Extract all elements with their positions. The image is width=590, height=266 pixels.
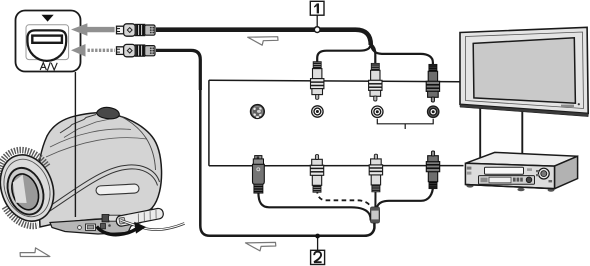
VCR bbox=[465, 152, 577, 191]
cable 1 branch to red plug bbox=[371, 44, 433, 65]
cable 1 branch to yellow plug bbox=[317, 43, 371, 62]
jack: S VIDEO bbox=[251, 105, 265, 119]
plug: cable2 s-video (up) bbox=[252, 156, 264, 194]
cable 2 junction moulding bbox=[371, 207, 380, 223]
cable 1 branch to white plug bbox=[371, 45, 375, 64]
label box 1 bbox=[310, 1, 324, 15]
camcorder body pill highlight bbox=[96, 184, 139, 195]
camcorder A/V port with plug inserted bbox=[102, 215, 122, 222]
cable 2 yellow plug branch (dashed, not connected) bbox=[317, 189, 371, 208]
plug of cable 1 (into A/V box) bbox=[117, 24, 156, 36]
plug: cable2 yellow (up) bbox=[310, 155, 323, 193]
jack: video (yellow) bbox=[312, 106, 323, 117]
camcorder A/V cable going out bbox=[121, 221, 185, 230]
signal-flow outline arrow (under cable 1, pointing left) bbox=[248, 37, 278, 46]
leader line from A/V box to port bbox=[74, 72, 76, 217]
dotted gray arrow into A/V box bbox=[71, 44, 115, 57]
plug of cable 2 (into A/V box) bbox=[117, 44, 156, 56]
jack: audio L (white) bbox=[372, 106, 383, 117]
cable 2 vertical run bbox=[200, 88, 374, 236]
jack: audio R (red) bbox=[428, 106, 439, 117]
plug: cable1 red (down, dark) bbox=[426, 64, 439, 102]
node 1 on cable 1 bbox=[314, 16, 320, 33]
cable 2 white plug branch bbox=[374, 190, 376, 209]
plug: cable2 red (up, dark) bbox=[426, 151, 439, 189]
bracket grouping audio jacks bbox=[377, 119, 433, 129]
cable 2 s-video branch bbox=[258, 193, 370, 221]
TV set bbox=[460, 27, 588, 116]
camcorder focus ring (knurled) bbox=[0, 142, 65, 234]
cable 1 trunk (A/V connecting cable) bbox=[156, 30, 371, 45]
plug: cable1 white (down) bbox=[369, 63, 382, 101]
camcorder jack cover (flipped open) bbox=[115, 208, 164, 227]
wire TV to VCR (right) bbox=[521, 111, 523, 155]
label box 2 bbox=[311, 250, 325, 264]
camcorder lens bbox=[0, 147, 63, 228]
open-cover arrow (black curved) bbox=[97, 222, 146, 235]
jack panel bracket: bottom edge to VCR bbox=[209, 165, 464, 167]
cable 2 trunk from camcorder plug bbox=[156, 50, 200, 90]
cable 2 red plug branch bbox=[377, 186, 433, 209]
signal-flow outline arrow (near cable 2, pointing left) bbox=[246, 242, 276, 251]
wire TV to VCR (left) bbox=[479, 107, 481, 161]
plug: cable2 white (up) bbox=[369, 154, 382, 192]
plug: cable1 yellow (down) bbox=[311, 62, 324, 100]
jack panel bracket: top edge to TV bbox=[209, 80, 460, 82]
camcorder viewfinder eyecup bbox=[97, 107, 120, 118]
jack panel bracket: left edge bbox=[208, 80, 210, 166]
camcorder base strip bbox=[50, 209, 152, 235]
solid gray arrow into A/V box bbox=[71, 23, 115, 36]
A/V remote connector callout box bbox=[16, 11, 81, 72]
signal-flow outline arrow (bottom left, pointing right) bbox=[20, 248, 50, 257]
node 2 on cable 2 bbox=[315, 234, 320, 250]
camcorder bbox=[38, 113, 162, 227]
